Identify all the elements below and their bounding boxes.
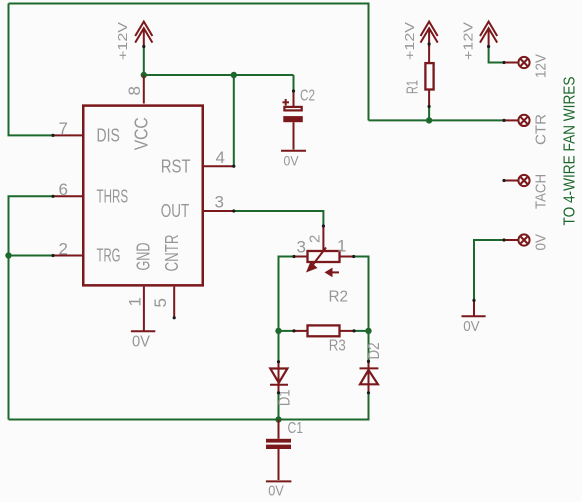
svg-text:+12V: +12V — [462, 21, 476, 60]
svg-text:R2: R2 — [329, 289, 349, 306]
pin 3 OUT stub — [204, 210, 234, 212]
wire 0V pad to ground — [474, 240, 504, 300]
wire OUT to R2 wiper — [234, 211, 324, 226]
svg-text:OUT: OUT — [161, 201, 190, 221]
supply +12V arrow at 12V pad — [480, 22, 497, 47]
svg-text:7: 7 — [59, 119, 68, 138]
svg-text:3: 3 — [215, 193, 224, 212]
pad CTR — [504, 115, 530, 126]
wire +12V arrow stem to pin 8 — [143, 47, 145, 76]
wire bottom bus — [9, 393, 369, 420]
pad TACH — [504, 175, 530, 186]
svg-text:D2: D2 — [366, 343, 383, 360]
svg-text:1: 1 — [337, 237, 346, 256]
ground 0V at 0V pad — [462, 300, 486, 316]
ground 0V at pin 1 — [131, 330, 155, 332]
resistor R3 — [294, 325, 354, 336]
node junction pin 8 — [141, 72, 147, 78]
node junction R3 left — [275, 328, 281, 334]
node junction R3 right — [365, 328, 371, 334]
svg-text:+12V: +12V — [116, 21, 130, 60]
svg-text:R1: R1 — [405, 80, 422, 94]
wire left branch below D1 — [278, 393, 280, 420]
svg-text:CTR: CTR — [533, 114, 550, 145]
svg-text:5: 5 — [151, 298, 170, 307]
ground 0V at C1 — [266, 480, 292, 482]
node junction C1 bus — [275, 416, 281, 422]
svg-text:8: 8 — [125, 86, 144, 95]
ic U1 555 body — [83, 106, 203, 286]
svg-text:0V: 0V — [132, 333, 151, 350]
svg-text:DIS: DIS — [97, 126, 120, 146]
supply +12V arrow at pin 8 — [135, 22, 152, 47]
svg-text:2: 2 — [307, 235, 324, 243]
svg-text:TACH: TACH — [533, 174, 550, 209]
svg-text:12V: 12V — [533, 54, 550, 78]
diode D2 — [360, 361, 379, 392]
svg-text:R3: R3 — [329, 338, 346, 355]
svg-text:RST: RST — [161, 157, 191, 177]
wire C2 drop — [293, 75, 295, 91]
resistor R1 — [425, 43, 433, 107]
trimmer R2 — [294, 226, 354, 277]
svg-text:+12V: +12V — [403, 21, 417, 60]
node junction pin 4 wire — [231, 72, 237, 78]
ground 0V at C2 — [281, 150, 306, 152]
svg-text:C2: C2 — [300, 88, 315, 105]
capacitor C2 — [283, 91, 303, 150]
pin 5 CNTR stub — [173, 287, 175, 318]
wire left vertical to pin 7 — [9, 4, 54, 136]
wire CTR horizontal — [369, 119, 505, 121]
svg-text:VCC: VCC — [132, 117, 152, 150]
wire R3 left — [279, 330, 295, 332]
node junction R1 CTR — [426, 117, 432, 123]
svg-text:TRG: TRG — [97, 246, 121, 266]
svg-text:2: 2 — [59, 239, 68, 258]
wire pin8 to C2 — [144, 74, 294, 76]
svg-text:0V: 0V — [533, 234, 550, 251]
wire pin 4 vertical — [233, 75, 235, 166]
pin 2 TRG stub — [53, 255, 83, 257]
wire pin 2 stub — [9, 255, 54, 257]
svg-text:CNTR: CNTR — [162, 235, 182, 272]
svg-text:TO 4-WIRE FAN WIRES: TO 4-WIRE FAN WIRES — [562, 77, 579, 226]
pin 7 DIS stub — [53, 134, 83, 136]
pad 0V — [504, 234, 530, 245]
svg-text:6: 6 — [59, 180, 68, 199]
wire pin 6 to left bus — [9, 196, 54, 419]
pin end connection dots — [51, 42, 505, 394]
svg-text:3: 3 — [297, 238, 306, 257]
supply +12V arrow at R1 — [421, 22, 438, 47]
svg-text:GND: GND — [134, 243, 154, 271]
svg-text:0V: 0V — [284, 154, 299, 169]
wire R1 bottom — [428, 107, 430, 121]
svg-text:C1: C1 — [288, 420, 304, 437]
pin 1 GND stub — [143, 287, 145, 331]
svg-text:4: 4 — [216, 148, 225, 167]
capacitor C1 — [266, 420, 291, 481]
svg-text:THRS: THRS — [97, 187, 129, 207]
diode D1 — [270, 362, 288, 393]
svg-text:1: 1 — [126, 297, 145, 306]
wire R2 pin3 to left branch — [279, 257, 295, 362]
pin 4 RST stub — [204, 165, 234, 167]
pad 12V — [504, 57, 530, 68]
node junction pin2 left bus — [5, 252, 11, 258]
wire R2 pin1 to right branch — [354, 257, 369, 362]
wire top bus DIS to CTR — [9, 4, 369, 121]
svg-text:0V: 0V — [268, 483, 284, 500]
pin 6 THRS stub — [53, 195, 83, 197]
pin 8 VCC stub — [143, 75, 145, 104]
svg-text:0V: 0V — [463, 318, 479, 335]
wire +12V arrow2 to 12V pad — [489, 47, 504, 63]
wire R3 right — [354, 330, 369, 332]
